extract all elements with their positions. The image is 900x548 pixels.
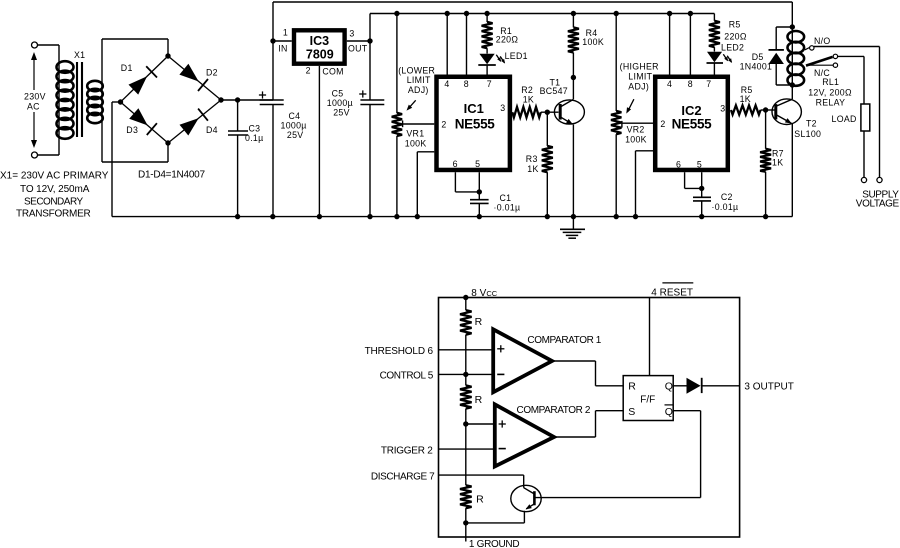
svg-text:0.1µ: 0.1µ (245, 133, 264, 143)
svg-text:3 OUTPUT: 3 OUTPUT (744, 382, 793, 393)
svg-text:F/F: F/F (640, 394, 655, 405)
svg-text:IC1: IC1 (464, 101, 484, 116)
svg-text:Q: Q (665, 406, 673, 418)
svg-text:TO 12V, 250mA: TO 12V, 250mA (20, 184, 90, 195)
svg-text:THRESHOLD 6: THRESHOLD 6 (365, 346, 434, 357)
svg-text:R2: R2 (521, 85, 533, 95)
svg-text:2: 2 (660, 119, 665, 129)
svg-text:RELAY: RELAY (816, 98, 846, 108)
svg-text:100K: 100K (582, 37, 604, 47)
svg-text:LIMIT: LIMIT (407, 75, 431, 85)
svg-text:AC: AC (27, 102, 40, 112)
svg-text:NE555: NE555 (672, 117, 713, 132)
svg-text:IN: IN (278, 43, 287, 53)
svg-text:R3: R3 (526, 154, 538, 164)
svg-text:LOAD: LOAD (832, 114, 857, 124)
svg-text:TRANSFORMER: TRANSFORMER (16, 209, 91, 220)
svg-text:COMPARATOR 1: COMPARATOR 1 (527, 335, 601, 346)
svg-text:NE555: NE555 (455, 116, 496, 131)
svg-text:1000µ: 1000µ (281, 121, 307, 131)
svg-text:1K: 1K (523, 94, 534, 104)
svg-text:3: 3 (720, 104, 725, 114)
svg-text:4: 4 (667, 79, 672, 89)
svg-text:6: 6 (453, 159, 458, 169)
svg-text:TRIGGER 2: TRIGGER 2 (381, 445, 433, 456)
svg-text:1: 1 (283, 28, 288, 38)
svg-text:·0.01µ: ·0.01µ (712, 202, 739, 212)
svg-text:4: 4 (444, 79, 449, 89)
svg-text:3: 3 (500, 103, 505, 113)
svg-text:R: R (476, 493, 484, 505)
svg-text:7: 7 (487, 79, 492, 89)
svg-text:S: S (628, 406, 635, 418)
svg-text:1000µ: 1000µ (327, 98, 353, 108)
svg-text:X1= 230V AC PRIMARY: X1= 230V AC PRIMARY (0, 171, 109, 182)
svg-text:2: 2 (441, 119, 446, 129)
svg-text:100K: 100K (405, 139, 427, 149)
svg-text:2: 2 (306, 65, 311, 75)
svg-text:(LOWER: (LOWER (398, 65, 435, 75)
svg-text:BC547: BC547 (540, 86, 568, 96)
svg-text:VR1: VR1 (406, 128, 424, 138)
svg-text:C4: C4 (289, 111, 301, 121)
svg-text:T2: T2 (806, 119, 817, 129)
svg-text:D1-D4=1N4007: D1-D4=1N4007 (138, 169, 205, 180)
svg-text:N/O: N/O (814, 36, 831, 46)
svg-text:5: 5 (475, 159, 480, 169)
svg-text:R: R (475, 316, 483, 328)
svg-text:ADJ): ADJ) (408, 85, 429, 95)
svg-text:25V: 25V (287, 130, 304, 140)
svg-text:7: 7 (706, 79, 711, 89)
svg-text:D1: D1 (121, 63, 133, 73)
svg-text:R: R (628, 381, 636, 393)
svg-text:C5: C5 (332, 89, 344, 99)
svg-text:LIMIT: LIMIT (628, 72, 652, 82)
svg-text:LED1: LED1 (505, 51, 528, 61)
svg-text:VR2: VR2 (627, 124, 645, 134)
svg-text:D3: D3 (126, 125, 138, 135)
svg-text:VOLTAGE: VOLTAGE (856, 198, 900, 209)
svg-text:12V, 200Ω: 12V, 200Ω (808, 88, 852, 98)
svg-text:1N4001: 1N4001 (740, 62, 773, 72)
svg-text:1 GROUND: 1 GROUND (469, 539, 519, 548)
svg-text:SL100: SL100 (794, 129, 821, 139)
svg-text:1K: 1K (740, 94, 751, 104)
svg-text:COMPARATOR 2: COMPARATOR 2 (517, 405, 591, 416)
svg-text:5: 5 (697, 160, 702, 170)
svg-text:DISCHARGE 7: DISCHARGE 7 (371, 471, 435, 482)
svg-text:D2: D2 (206, 68, 218, 78)
svg-text:220Ω: 220Ω (724, 31, 747, 41)
svg-text:8: 8 (688, 79, 693, 89)
svg-text:X1: X1 (74, 50, 85, 60)
svg-text:COM: COM (322, 67, 343, 77)
svg-text:8 VCC: 8 VCC (471, 288, 497, 299)
svg-text:ADJ): ADJ) (628, 81, 649, 91)
svg-text:SECONDARY: SECONDARY (24, 197, 83, 208)
svg-text:1K: 1K (772, 157, 783, 167)
svg-text:1K: 1K (527, 164, 538, 174)
svg-text:230V: 230V (24, 92, 46, 102)
svg-text:D4: D4 (206, 125, 218, 135)
svg-text:8: 8 (464, 79, 469, 89)
svg-text:OUT: OUT (348, 43, 368, 53)
svg-text:220Ω: 220Ω (496, 35, 519, 45)
svg-text:6: 6 (676, 160, 681, 170)
svg-text:LED2: LED2 (721, 42, 744, 52)
svg-text:RL1: RL1 (822, 77, 839, 87)
svg-text:R: R (475, 394, 483, 406)
svg-text:100K: 100K (625, 134, 647, 144)
svg-text:R5: R5 (729, 19, 741, 29)
svg-text:CONTROL 5: CONTROL 5 (380, 371, 434, 382)
svg-text:3: 3 (349, 29, 354, 39)
svg-text:IC3: IC3 (310, 34, 330, 48)
svg-text:Q: Q (665, 381, 673, 393)
svg-text:(HIGHER: (HIGHER (620, 61, 659, 71)
svg-text:7809: 7809 (306, 48, 334, 62)
svg-text:25V: 25V (333, 108, 350, 118)
svg-text:C2: C2 (721, 192, 733, 202)
svg-text:4 RESET: 4 RESET (651, 288, 693, 299)
svg-text:·0.01µ: ·0.01µ (494, 203, 521, 213)
